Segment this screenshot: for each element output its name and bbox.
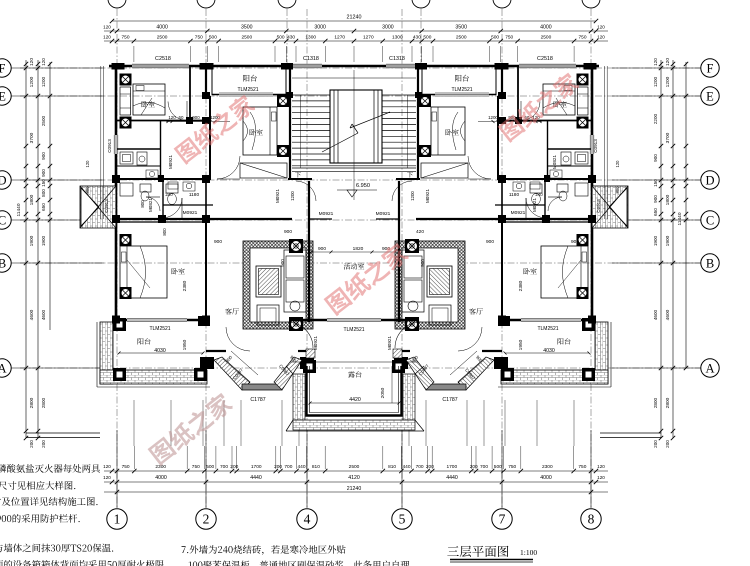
- left balcony brick west band: [100, 322, 113, 384]
- svg-text:5: 5: [399, 512, 406, 527]
- svg-text:800: 800: [41, 189, 46, 197]
- svg-text:21240: 21240: [347, 486, 362, 492]
- svg-text:E: E: [0, 89, 6, 103]
- lower bedroom walls: [117, 221, 209, 223]
- svg-text:TLM2521: TLM2521: [537, 326, 558, 332]
- svg-text:200: 200: [274, 464, 282, 470]
- bedroom2 wardrobe columns: [277, 95, 289, 107]
- terrace corner posts: [303, 360, 316, 373]
- svg-text:M0921: M0921: [511, 210, 526, 216]
- terrace dim line: [310, 402, 399, 404]
- svg-text:900: 900: [214, 239, 222, 245]
- svg-text:3000: 3000: [382, 25, 394, 31]
- svg-text:1: 1: [114, 512, 121, 527]
- svg-text:200: 200: [470, 464, 478, 470]
- svg-text:120: 120: [597, 464, 605, 469]
- svg-text:C: C: [706, 213, 714, 227]
- D wall center: [288, 178, 312, 180]
- svg-text:4600: 4600: [665, 309, 671, 320]
- svg-text:M0921: M0921: [387, 336, 392, 350]
- svg-text:120: 120: [41, 58, 46, 66]
- svg-text:C: C: [0, 213, 6, 227]
- svg-text:1700: 1700: [251, 464, 262, 470]
- svg-text:C2518: C2518: [155, 56, 171, 62]
- svg-text:900: 900: [653, 154, 658, 162]
- svg-text:M0921: M0921: [168, 155, 173, 169]
- terrace inner U wall: [307, 366, 402, 416]
- top dimension row: detail dims: [104, 40, 608, 42]
- svg-text:2380: 2380: [518, 280, 524, 291]
- svg-text:120: 120: [597, 475, 605, 480]
- svg-text:2200: 2200: [653, 113, 658, 124]
- closet dim line: [168, 120, 209, 122]
- svg-text:120: 120: [103, 25, 111, 30]
- svg-text:1270: 1270: [334, 35, 345, 41]
- svg-text:1200: 1200: [290, 191, 295, 201]
- window C0913 left wall: [114, 135, 119, 154]
- svg-text:800: 800: [140, 200, 145, 208]
- svg-text:11440: 11440: [16, 203, 22, 216]
- terrace label: [348, 371, 361, 377]
- stair center guide: [353, 70, 355, 200]
- svg-text:2500: 2500: [541, 35, 552, 41]
- svg-text:4440: 4440: [250, 475, 262, 481]
- stair break line: [322, 133, 358, 152]
- svg-text:2050: 2050: [380, 387, 386, 398]
- svg-text:2500: 2500: [349, 464, 360, 470]
- bottom dimension row: detail dims: [104, 470, 608, 472]
- notes bottom middle: [182, 545, 346, 555]
- svg-text:1200: 1200: [488, 115, 498, 120]
- svg-text:6.950: 6.950: [356, 183, 370, 189]
- svg-text:4000: 4000: [156, 25, 168, 31]
- svg-text:440: 440: [402, 464, 410, 470]
- svg-text:2800: 2800: [29, 397, 35, 408]
- extension lines to top dims: [134, 46, 574, 62]
- doors M0921 to terrace: [287, 322, 313, 348]
- svg-text:900: 900: [41, 169, 46, 177]
- svg-text:TLM2521: TLM2521: [149, 326, 170, 332]
- svg-text:900: 900: [192, 115, 200, 120]
- svg-text:C0913: C0913: [596, 199, 601, 213]
- terrace brick bottom band: [293, 420, 415, 430]
- TV cabinet: [256, 266, 281, 297]
- bottom dimension row: bay dims 4000 4440 4120: [104, 481, 608, 483]
- bed bedroom1: [133, 84, 165, 115]
- svg-text:900: 900: [571, 239, 579, 245]
- bay dim arrows left: [231, 351, 258, 375]
- svg-text:3700: 3700: [29, 132, 35, 143]
- svg-text:D: D: [705, 173, 714, 187]
- stair upper landing edge: [292, 77, 416, 79]
- svg-text:F: F: [0, 61, 6, 75]
- svg-text:1180: 1180: [189, 192, 200, 198]
- svg-text:420: 420: [416, 229, 424, 235]
- left chain bottom end: [26, 432, 100, 434]
- svg-text:750: 750: [195, 35, 203, 41]
- watermark top-left: [173, 92, 257, 165]
- svg-text:500: 500: [206, 464, 214, 470]
- svg-text:3700: 3700: [665, 132, 671, 143]
- svg-text:21240: 21240: [347, 15, 362, 21]
- right axis bubbles F E D C B A: [612, 67, 701, 69]
- svg-text:240: 240: [535, 192, 543, 197]
- svg-text:4030: 4030: [154, 348, 166, 354]
- extra bath fixtures: [146, 170, 158, 178]
- svg-text:700: 700: [284, 464, 292, 470]
- svg-text:1:100: 1:100: [520, 548, 537, 557]
- sofa: [284, 250, 306, 312]
- north wall center with C1318 windows: [288, 65, 420, 68]
- bedroom2 door arc: [217, 156, 240, 179]
- svg-text:120: 120: [103, 475, 111, 480]
- stair well landing box: [330, 90, 382, 163]
- svg-text:2: 2: [203, 512, 210, 527]
- svg-text:750: 750: [578, 35, 586, 41]
- svg-text:650: 650: [653, 208, 658, 216]
- top dimension row: bay dims 4000 3500 3000: [104, 30, 608, 32]
- bedroom1 door arc: [168, 102, 187, 121]
- svg-text:1200: 1200: [410, 191, 415, 201]
- stair hall east wall: [417, 67, 419, 180]
- svg-text:750: 750: [578, 464, 586, 470]
- lower bedroom bed: [120, 246, 167, 298]
- right bedroom labels: [553, 101, 566, 107]
- watermark bottom-left: [147, 390, 235, 466]
- C wall center segments: [309, 218, 332, 220]
- svg-text:2800: 2800: [665, 397, 671, 408]
- svg-text:4000: 4000: [155, 475, 167, 481]
- svg-text:430: 430: [413, 35, 421, 41]
- living room south wall stubs: [206, 350, 226, 352]
- interior dim line bedroom1 nook: [166, 121, 230, 123]
- svg-text:120: 120: [29, 58, 35, 66]
- svg-text:200: 200: [653, 440, 658, 448]
- svg-text:2380: 2380: [182, 280, 188, 291]
- bottom overall dimension 21240: [104, 491, 608, 493]
- svg-text:F: F: [707, 61, 714, 75]
- top axis bubbles (cut off at page top): [108, 0, 126, 8]
- svg-text:M0821: M0821: [552, 155, 557, 169]
- svg-text:8: 8: [588, 512, 595, 527]
- svg-text:120: 120: [85, 160, 90, 168]
- svg-text:1820: 1820: [353, 246, 364, 252]
- watermark top-right: [497, 70, 581, 143]
- C axis wall left: [113, 218, 292, 220]
- bath fixtures lower (toilet sink): [120, 183, 133, 196]
- svg-text:M0921: M0921: [275, 189, 280, 203]
- svg-text:B: B: [0, 256, 6, 270]
- svg-text:4000: 4000: [540, 25, 552, 31]
- balcony outer edge lines: [97, 386, 210, 388]
- svg-text:M0921: M0921: [376, 211, 391, 217]
- svg-text:TLM2521: TLM2521: [343, 327, 364, 333]
- title block: [447, 546, 508, 557]
- wall D-C inner verticals: [162, 181, 164, 219]
- svg-text:2300: 2300: [542, 464, 553, 470]
- bedroom1 label: [141, 101, 154, 107]
- activity room label: [344, 263, 364, 269]
- svg-text:C0913: C0913: [107, 139, 112, 153]
- svg-text:M0821: M0821: [148, 198, 153, 212]
- living room labels: [225, 308, 238, 314]
- svg-text:1800: 1800: [29, 194, 35, 205]
- door arc corridor D-C: [162, 198, 182, 218]
- svg-text:TLM2521: TLM2521: [237, 87, 258, 93]
- svg-text:1300: 1300: [305, 35, 316, 41]
- svg-text:200: 200: [230, 464, 238, 470]
- svg-text:500: 500: [209, 35, 217, 41]
- stair hall west wall: [289, 67, 291, 180]
- doors M0921 into hall: [296, 181, 316, 201]
- hall side walls (activity room): [308, 181, 310, 322]
- top overall dimension 21240: [112, 20, 596, 22]
- svg-text:M0921: M0921: [183, 210, 198, 216]
- notes bottom left: [0, 464, 100, 473]
- svg-text:2500: 2500: [157, 35, 168, 41]
- canopy outside west wall: [80, 186, 116, 228]
- south wall bedroom with TLM2521: [113, 319, 209, 321]
- svg-text:C0913: C0913: [104, 199, 109, 213]
- svg-text:C1318: C1318: [389, 56, 405, 62]
- living room niche hatched frame: [243, 241, 313, 329]
- bedroom2 bed (against axis3 wall): [243, 107, 277, 155]
- armchair lower: [257, 305, 279, 325]
- svg-text:4030: 4030: [543, 348, 555, 354]
- svg-text:900: 900: [486, 239, 494, 245]
- svg-text:120: 120: [615, 160, 620, 168]
- svg-text:TLM2521: TLM2521: [451, 87, 472, 93]
- left balcony brick south band: [100, 370, 207, 384]
- svg-text:1900: 1900: [653, 235, 658, 246]
- svg-text:4000: 4000: [540, 475, 552, 481]
- svg-text:700: 700: [480, 464, 488, 470]
- svg-text:4120: 4120: [348, 475, 360, 481]
- svg-text:4600: 4600: [41, 309, 46, 320]
- svg-text:A: A: [0, 361, 7, 375]
- wall axis2 upper: [205, 67, 207, 96]
- svg-text:M0921: M0921: [313, 336, 318, 350]
- svg-text:900: 900: [653, 195, 658, 203]
- terrace brick left band: [293, 374, 305, 420]
- svg-text:240: 240: [165, 192, 173, 197]
- svg-text:1180: 1180: [509, 192, 520, 198]
- column axis3 north: [281, 63, 293, 70]
- stair down labels: [295, 172, 301, 178]
- svg-text:C0913: C0913: [593, 139, 598, 153]
- svg-text:M0921: M0921: [319, 211, 334, 217]
- svg-text:4600: 4600: [29, 309, 35, 320]
- landing lower edge: [292, 167, 416, 169]
- stair handrail lines: [300, 95, 302, 168]
- svg-text:120: 120: [103, 35, 111, 40]
- corner column: [112, 63, 125, 70]
- bay window C1787 left: [200, 357, 314, 390]
- grid axis vertical lines: [117, 9, 591, 508]
- svg-text:2800: 2800: [653, 397, 658, 408]
- svg-text:1200: 1200: [29, 76, 35, 87]
- svg-text:500: 500: [423, 35, 431, 41]
- svg-text:C1318: C1318: [303, 56, 319, 62]
- svg-text:1800: 1800: [665, 194, 671, 205]
- svg-text:4420: 4420: [349, 397, 361, 403]
- svg-text:A: A: [705, 361, 714, 375]
- grid axis horizontal lines: [20, 68, 701, 368]
- svg-text:1270: 1270: [363, 35, 374, 41]
- svg-text:4: 4: [304, 512, 311, 527]
- svg-text:750: 750: [508, 464, 516, 470]
- svg-text:900: 900: [284, 229, 292, 235]
- bottom axis bubbles 1 2 4 5 7 8: [116, 430, 118, 508]
- svg-text:750: 750: [121, 35, 129, 41]
- svg-text:500: 500: [277, 35, 285, 41]
- svg-text:900: 900: [41, 152, 46, 160]
- svg-text:2800: 2800: [41, 397, 46, 408]
- svg-text:3000: 3000: [314, 25, 326, 31]
- svg-text:900: 900: [280, 259, 285, 267]
- svg-text:1700: 1700: [446, 464, 457, 470]
- svg-text:810: 810: [388, 464, 396, 470]
- north balcony side rails: [211, 68, 213, 95]
- north exterior wall left: [109, 65, 293, 68]
- svg-text:1200: 1200: [653, 76, 658, 87]
- svg-text:2500: 2500: [456, 35, 467, 41]
- svg-text:1200: 1200: [665, 76, 671, 87]
- north balcony floor edge / E wall with TLM2521: [212, 94, 288, 96]
- svg-text:800: 800: [85, 186, 90, 194]
- svg-text:430: 430: [287, 35, 295, 41]
- svg-text:200: 200: [665, 440, 670, 448]
- closet between wardrobe columns: [120, 87, 131, 115]
- svg-text:120: 120: [168, 115, 176, 120]
- wall junction columns: [112, 175, 120, 183]
- corridor partition wall: [163, 204, 213, 206]
- svg-text:7: 7: [499, 512, 506, 527]
- svg-text:650: 650: [41, 203, 46, 211]
- column axis2 north: [200, 63, 214, 70]
- D axis wall left: [113, 178, 210, 180]
- svg-text:1300: 1300: [392, 35, 403, 41]
- wall bedroom1/closet vertical: [189, 67, 191, 121]
- svg-text:3500: 3500: [241, 25, 253, 31]
- svg-text:60: 60: [179, 115, 184, 120]
- svg-text:200: 200: [426, 464, 434, 470]
- svg-text:1950: 1950: [182, 339, 188, 350]
- lower bedroom labels: [171, 268, 184, 274]
- svg-text:500: 500: [494, 464, 502, 470]
- bath fixtures upper: [120, 152, 133, 164]
- terrace top edge line: [290, 361, 418, 363]
- svg-text:750: 750: [192, 464, 200, 470]
- west exterior wall: [115, 65, 118, 220]
- svg-text:200: 200: [41, 440, 46, 448]
- balcony corner posts: [113, 318, 126, 331]
- svg-text:3500: 3500: [455, 25, 467, 31]
- svg-text:4600: 4600: [653, 309, 658, 320]
- terrace outer outline: [286, 430, 424, 432]
- west wall lower bedroom: [115, 222, 118, 322]
- svg-text:E: E: [706, 89, 714, 103]
- svg-text:4440: 4440: [446, 475, 458, 481]
- door arc living to terrace-side: [226, 327, 250, 351]
- watermark center: [323, 240, 411, 316]
- svg-text:800: 800: [615, 186, 620, 194]
- bedroom2 wardrobe with diagonal: [240, 163, 287, 178]
- svg-text:900: 900: [420, 259, 425, 267]
- lower bedroom wardrobe columns: [120, 234, 132, 246]
- svg-text:B: B: [706, 256, 714, 270]
- svg-text:M0921: M0921: [532, 198, 537, 212]
- svg-text:M0921: M0921: [425, 189, 430, 203]
- svg-text:750: 750: [505, 35, 513, 41]
- svg-text:810: 810: [312, 464, 320, 470]
- activity room south wall with TLM2521 door: [290, 319, 418, 321]
- svg-text:120: 120: [665, 58, 671, 66]
- svg-text:700: 700: [220, 464, 228, 470]
- balcony NE corner block: [198, 316, 210, 326]
- svg-text:440: 440: [297, 464, 305, 470]
- north balcony labels: [243, 75, 257, 82]
- svg-text:1200: 1200: [41, 76, 46, 87]
- terrace brick right band: [403, 374, 415, 420]
- svg-text:800: 800: [162, 228, 167, 236]
- wall below bedroom1: [117, 120, 209, 122]
- svg-text:2500: 2500: [241, 35, 252, 41]
- svg-text:120: 120: [653, 58, 658, 66]
- svg-text:120: 120: [597, 25, 605, 30]
- svg-text:200: 200: [29, 440, 34, 448]
- left dimension chain lines: [25, 60, 27, 438]
- niche corner flower columns: [289, 239, 303, 253]
- bedroom2 label: [249, 129, 262, 135]
- extension lines to bottom dims: [134, 400, 574, 469]
- svg-text:700: 700: [416, 464, 424, 470]
- door arc bath: [146, 197, 160, 211]
- svg-text:D: D: [0, 173, 7, 187]
- svg-text:120: 120: [597, 35, 605, 40]
- svg-text:500: 500: [491, 35, 499, 41]
- wardrobe column symbols bedroom1: [120, 74, 132, 86]
- svg-text:120: 120: [103, 464, 111, 469]
- window C2518: [132, 64, 189, 68]
- svg-text:C2518: C2518: [537, 56, 553, 62]
- svg-text:C1787: C1787: [250, 397, 265, 403]
- svg-text:1900: 1900: [665, 235, 671, 246]
- svg-text:2500: 2500: [41, 115, 46, 126]
- stair treads: [292, 95, 416, 172]
- left axis bubbles F E D C B A (half cut): [11, 67, 104, 69]
- bathroom divider walls: [117, 148, 160, 150]
- svg-text:750: 750: [122, 464, 130, 470]
- west facade face lines: [100, 66, 102, 219]
- svg-text:1900: 1900: [41, 235, 46, 246]
- svg-text:900: 900: [318, 246, 326, 252]
- svg-text:11440: 11440: [677, 212, 683, 225]
- svg-text:C1787: C1787: [442, 397, 457, 403]
- right dimension chain lines: [660, 60, 662, 438]
- balcony interior dim line: [119, 352, 203, 354]
- svg-text:1950: 1950: [518, 339, 524, 350]
- balcony labels bottom: [138, 338, 151, 344]
- svg-text:1900: 1900: [29, 235, 35, 246]
